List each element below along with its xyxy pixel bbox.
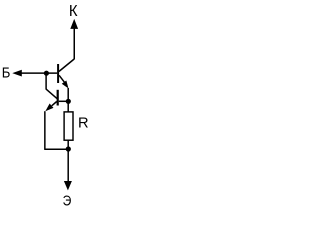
svg-text:К: К [69, 3, 78, 20]
svg-text:R: R [78, 115, 89, 131]
svg-text:Э: Э [63, 193, 72, 207]
svg-text:Б: Б [2, 65, 11, 81]
